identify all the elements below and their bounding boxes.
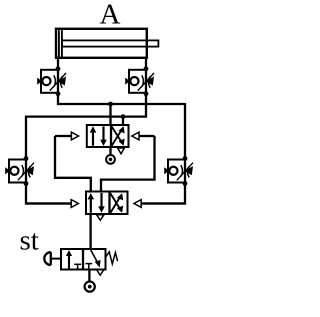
- label st: [20, 225, 39, 257]
- wire FC1 bottom to upper bus then right trunk: [58, 93, 185, 158]
- valve ST return spring: [106, 252, 118, 264]
- valve V1 left pilot: [55, 132, 79, 140]
- cylinder A piston: [59, 30, 62, 57]
- wire V2 port 1 to valve ST output: [89, 214, 91, 249]
- svg-text:st: st: [20, 225, 39, 257]
- wire FC3 bottom to V2 left pilot: [26, 184, 71, 204]
- valve V2 (5/2-way double pilot) body: [86, 192, 128, 215]
- wire cylinder left port to FC1: [57, 58, 59, 70]
- node junction on lower bus: [121, 114, 126, 119]
- wire branch lower bus to valve V1 port 2: [122, 117, 124, 126]
- valve V1 right position crossed arrows: [112, 126, 125, 146]
- flow control valve FC4 (middle right, one-way flow control): [164, 156, 193, 186]
- valve ST left position arrow and blocked port: [66, 250, 81, 270]
- wire branch upper bus to valve V1 port 4: [109, 104, 111, 126]
- valve V1 right pilot: [132, 132, 155, 140]
- cylinder A barrel: [56, 29, 147, 58]
- valve ST pressure source: [85, 270, 95, 292]
- node junction on upper bus: [108, 102, 113, 107]
- wire cylinder right port to FC2: [145, 58, 147, 70]
- label A: [100, 0, 121, 31]
- valve V2 left pilot: [26, 200, 78, 208]
- wire FC4 bottom to V2 right pilot: [142, 184, 185, 204]
- flow control valve FC3 (middle left, one-way flow control): [5, 156, 34, 186]
- valve V2 exhaust triangle: [97, 215, 104, 220]
- flow control valve FC1 (top left, one-way flow control): [37, 66, 66, 96]
- wire V1 left pilot to V2 port 4: [55, 136, 91, 192]
- valve V2 right pilot: [134, 200, 185, 208]
- flow control valve FC2 (top right, one-way flow control): [125, 66, 154, 96]
- wire FC2 bottom to lower bus then left trunk: [26, 93, 146, 158]
- valve V1 exhaust triangle: [118, 148, 125, 154]
- cylinder A rod: [62, 40, 158, 46]
- valve V1 pressure source: [106, 147, 115, 164]
- valve V1 left position arrows: [90, 126, 107, 146]
- valve V1 (5/2-way double pilot) body: [87, 125, 129, 147]
- valve V2 right position crossed arrows: [110, 193, 123, 213]
- wire V1 right pilot to V2 port 2: [101, 136, 155, 192]
- valve ST push button actuator: [44, 252, 61, 265]
- valve ST right position exhaust path and blocked port: [85, 250, 100, 270]
- valve ST (3/2-way push button valve) body: [61, 249, 106, 270]
- valve ST vent triangle: [97, 270, 104, 275]
- svg-text:A: A: [100, 0, 121, 31]
- valve V2 left position arrows: [88, 193, 105, 213]
